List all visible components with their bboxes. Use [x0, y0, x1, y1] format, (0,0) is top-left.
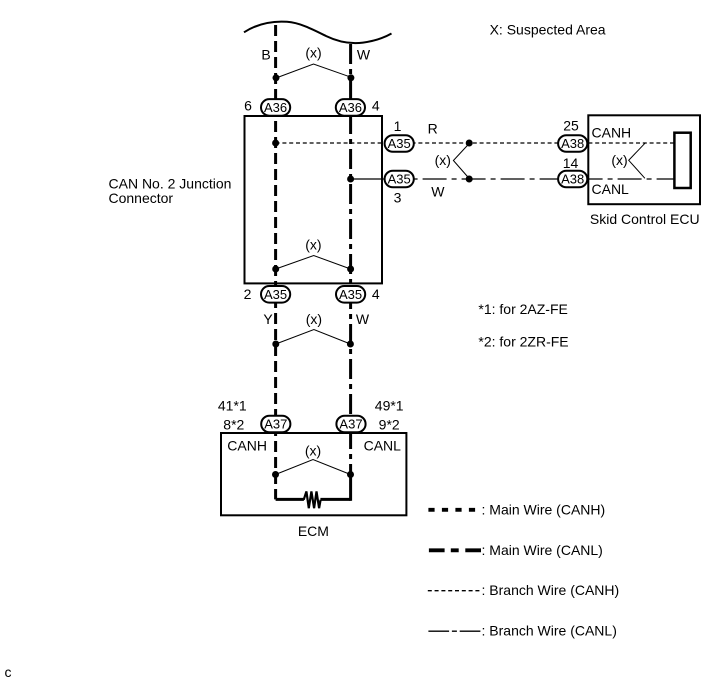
svg-text:(x): (x) [305, 45, 321, 61]
suspected-area pointer (x) below junction box [276, 311, 351, 344]
main wire CANH (vertical, thick dashed) [274, 25, 277, 499]
svg-text:6: 6 [244, 98, 252, 114]
svg-text:A37: A37 [264, 417, 287, 432]
node dot CANH below junction box [272, 341, 279, 348]
branch wire CANH (horizontal, thin dashed) [276, 142, 675, 144]
svg-text:c: c [5, 664, 12, 680]
svg-text:49*1: 49*1 [375, 398, 404, 414]
svg-text:CANL: CANL [364, 438, 402, 454]
label CAN No. 2 Junction Connector [109, 176, 232, 207]
legend sample: branch wire CANH [428, 590, 481, 592]
suspected-area pointer (x) top [276, 45, 351, 78]
svg-text:A35: A35 [339, 287, 362, 302]
wire break wave [244, 22, 392, 43]
connector A36 pin 6 (oval) [261, 99, 290, 116]
suspected-area pointer (x) in Skid Control ECU [611, 143, 645, 178]
main wire CANL solid segment into ECM resistor [349, 473, 352, 501]
connector A36 pin 4 (oval) [336, 99, 365, 116]
svg-text:A35: A35 [388, 136, 411, 151]
svg-text:: Main Wire (CANL): : Main Wire (CANL) [482, 542, 603, 558]
svg-text:(x): (x) [306, 311, 322, 327]
node dot CANL bottom of junction box [347, 266, 354, 273]
node dot CANL at branch junction [347, 176, 354, 183]
svg-text:14: 14 [563, 155, 579, 171]
node dot CANH at branch junction [272, 140, 279, 147]
svg-text:8*2: 8*2 [223, 417, 244, 433]
svg-text:A35: A35 [388, 172, 411, 187]
Skid Control ECU box [588, 115, 700, 204]
branch wire CANL (horizontal, thin dash-dot) [384, 178, 675, 180]
svg-text:*1: for 2AZ-FE: *1: for 2AZ-FE [478, 301, 567, 317]
svg-text:*2: for 2ZR-FE: *2: for 2ZR-FE [478, 334, 568, 350]
svg-text:: Branch Wire (CANH): : Branch Wire (CANH) [482, 582, 620, 598]
svg-text:: Branch Wire (CANL): : Branch Wire (CANL) [482, 623, 617, 639]
svg-text:A38: A38 [561, 172, 584, 187]
ECM box [221, 433, 406, 515]
svg-text:9*2: 9*2 [379, 417, 400, 433]
node dot CANL below junction box [347, 341, 354, 348]
svg-text:A35: A35 [264, 287, 287, 302]
node dot on branch CANH mid [466, 140, 473, 147]
svg-text:41*1: 41*1 [218, 398, 247, 414]
svg-text:(x): (x) [435, 152, 451, 168]
node dot on branch CANL mid [466, 176, 473, 183]
svg-text:(x): (x) [611, 152, 627, 168]
main wire CANL (vertical, thick dash-dot) [349, 44, 352, 475]
node dot CANH in ECM [272, 471, 279, 478]
node dot CANH bottom of junction box [272, 266, 279, 273]
svg-text:A37: A37 [339, 417, 362, 432]
connector A37 pin 41/8 (oval) [261, 416, 290, 433]
connector A38 pin 25 (oval) [558, 135, 587, 152]
svg-text:Y: Y [263, 311, 273, 327]
connector A38 pin 14 (oval) [558, 171, 587, 188]
legend sample: main wire CANH [428, 508, 476, 512]
connector A37 pin 49/9 (oval) [336, 416, 365, 433]
svg-text:4: 4 [372, 98, 380, 114]
svg-text:4: 4 [372, 286, 380, 302]
terminating resistor inside Skid Control ECU [674, 133, 690, 188]
svg-text:A36: A36 [264, 100, 287, 115]
svg-text:CANH: CANH [592, 125, 632, 141]
connector A35 pin 1 (oval) [385, 135, 414, 152]
branch wire CANL solid segment at A35 [351, 178, 384, 180]
svg-text:25: 25 [563, 118, 579, 134]
legend sample: main wire CANL [429, 548, 481, 552]
svg-text:W: W [357, 47, 371, 63]
svg-text:CANH: CANH [227, 438, 267, 454]
svg-text:(x): (x) [305, 237, 321, 253]
svg-text:Skid Control ECU: Skid Control ECU [590, 211, 700, 227]
svg-text:A36: A36 [339, 100, 362, 115]
legend sample: branch wire CANL [428, 630, 480, 632]
node dot CANL in ECM [347, 471, 354, 478]
suspected-area pointer (x) in junction box [276, 237, 351, 270]
connector A35 pin 2 (oval) [261, 286, 290, 303]
terminating resistor inside ECM (zigzag) with wire [276, 498, 304, 501]
svg-text:(x): (x) [305, 443, 321, 459]
suspected-area pointer (x) mid branch [435, 144, 470, 179]
svg-text:R: R [428, 121, 438, 137]
node dot on CANH below wave [273, 74, 280, 81]
svg-text:CANL: CANL [592, 181, 630, 197]
svg-text:X: Suspected Area: X: Suspected Area [490, 22, 606, 38]
svg-text:A38: A38 [561, 136, 584, 151]
node dot on CANL below wave [347, 74, 354, 81]
svg-text:: Main Wire (CANH): : Main Wire (CANH) [482, 502, 606, 518]
svg-text:B: B [261, 47, 270, 63]
svg-text:W: W [356, 311, 370, 327]
svg-text:W: W [431, 184, 445, 200]
svg-text:3: 3 [394, 190, 402, 206]
connector A35 pin 3 (oval) [385, 171, 414, 188]
connector A35 pin 4 (oval) [336, 286, 365, 303]
svg-text:Connector: Connector [109, 190, 174, 206]
CAN No. 2 Junction Connector box [245, 116, 383, 283]
svg-text:2: 2 [244, 286, 252, 302]
suspected-area pointer (x) in ECM [276, 443, 351, 475]
svg-text:ECM: ECM [298, 523, 329, 539]
svg-text:1: 1 [394, 118, 402, 134]
